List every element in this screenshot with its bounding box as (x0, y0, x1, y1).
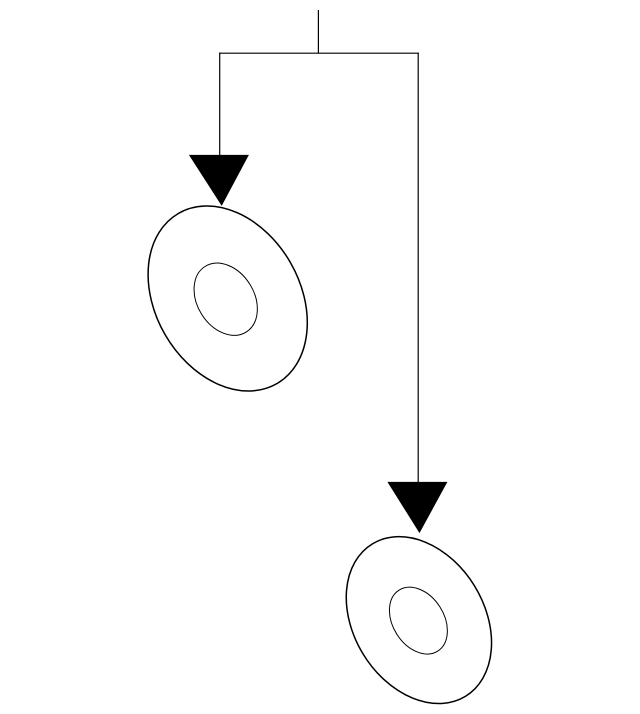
right speaker inner ellipse (377, 576, 459, 664)
left speaker inner ellipse (181, 251, 270, 347)
wire right drop (417, 53, 419, 483)
arrowhead right (387, 482, 447, 533)
wire left drop (219, 53, 221, 156)
right speaker outer ellipse (317, 510, 522, 714)
wire horizontal branch (219, 52, 419, 54)
left speaker outer ellipse (116, 177, 340, 420)
arrowhead left (189, 155, 249, 206)
wire top stub (317, 10, 319, 53)
